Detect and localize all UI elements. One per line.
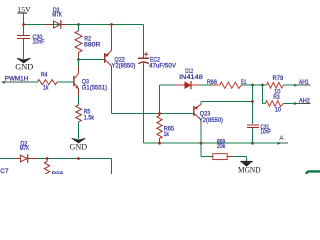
net label A	[278, 135, 287, 145]
ground GND (under C30)	[15, 58, 33, 71]
wire Q22 base	[79, 59, 105, 61]
wire to D12	[160, 85, 175, 113]
capacitor C31	[247, 124, 271, 143]
svg-text:G1(5551): G1(5551)	[82, 85, 107, 92]
wire Q23 collector lower	[200, 127, 202, 143]
junction R65 top	[158, 112, 161, 115]
svg-text:IN4148: IN4148	[179, 74, 203, 81]
svg-text:R3: R3	[273, 94, 280, 101]
svg-text:M7K: M7K	[52, 11, 62, 18]
svg-text:AH2: AH2	[299, 98, 310, 105]
resistor R79	[263, 75, 284, 96]
power 15V	[17, 5, 31, 25]
svg-text:GND: GND	[15, 63, 33, 72]
svg-text:10nF: 10nF	[33, 39, 45, 46]
svg-text:10: 10	[275, 106, 281, 113]
junction emitter wire	[251, 100, 254, 103]
resistor R66	[207, 79, 253, 89]
svg-text:MGND: MGND	[238, 165, 261, 174]
net label PWM1H	[2, 75, 38, 83]
svg-text:Y2(8550): Y2(8550)	[199, 117, 223, 124]
svg-text:C7: C7	[0, 168, 9, 174]
ground GND (under R5)	[70, 138, 88, 151]
junction R2 top	[77, 23, 80, 26]
junction AH1 rail / R3 feed	[261, 84, 264, 87]
wire Q22 collector down and across to Q23 base	[112, 73, 194, 114]
capacitor EC2	[138, 25, 176, 144]
resistor R69	[201, 138, 247, 159]
wire between junctions	[253, 84, 263, 86]
resistor R65	[157, 114, 175, 144]
junction at 15V/C30	[22, 23, 25, 26]
svg-text:1k: 1k	[43, 84, 49, 91]
svg-text:GND: GND	[70, 142, 88, 151]
diode D3	[45, 7, 67, 29]
svg-text:M7K: M7K	[20, 145, 30, 152]
svg-text:R66: R66	[207, 79, 217, 86]
diode D2	[0, 141, 112, 174]
svg-text:Y2(8550): Y2(8550)	[112, 63, 136, 70]
resistor R5	[76, 96, 95, 140]
wire corner (sheet edge, bottom right)	[307, 171, 320, 174]
svg-text:1.5k: 1.5k	[84, 114, 95, 121]
capacitor C30	[17, 25, 45, 60]
net label AH2	[283, 98, 310, 106]
svg-text:47uF/50V: 47uF/50V	[149, 62, 177, 69]
transistor Q3	[73, 74, 107, 96]
wire Q3 collector	[78, 60, 80, 74]
wire top rail y=24.5	[24, 24, 144, 26]
junction bottom wire	[77, 157, 80, 160]
junction Q3 collector / Q22 base	[77, 58, 80, 61]
wire C31 net vertical	[252, 85, 254, 124]
junction R65 bottom	[158, 142, 161, 145]
svg-text:680R: 680R	[84, 42, 101, 49]
svg-text:R79: R79	[273, 75, 284, 82]
junction top rail / Q22 emitter	[110, 23, 113, 26]
ground MGND	[238, 157, 261, 175]
transistor Q23	[193, 102, 223, 128]
transistor Q22	[104, 25, 136, 73]
resistor R4	[37, 71, 73, 91]
junction C31 bottom	[251, 142, 254, 145]
junction AH1 rail / C31	[251, 84, 254, 87]
wire Q23 emitter to C31 net	[201, 101, 253, 103]
svg-text:R4: R4	[41, 71, 48, 78]
svg-text:1k: 1k	[164, 131, 170, 138]
svg-text:PWM1H: PWM1H	[5, 75, 29, 82]
svg-text:R56: R56	[52, 171, 64, 174]
resistor R3	[263, 85, 284, 113]
wire lower rail y=142.5	[144, 142, 289, 144]
resistor R56 (partial, cut by bottom edge)	[44, 159, 63, 179]
net label AH1	[283, 79, 310, 87]
resistor R2	[75, 25, 101, 60]
svg-text:AH1: AH1	[299, 79, 309, 86]
svg-text:10nF: 10nF	[260, 128, 271, 135]
svg-text:20k: 20k	[217, 143, 226, 150]
diode D12	[175, 68, 220, 89]
junction bottom wire / R56	[46, 157, 49, 160]
junction Q23 collector	[200, 142, 203, 145]
